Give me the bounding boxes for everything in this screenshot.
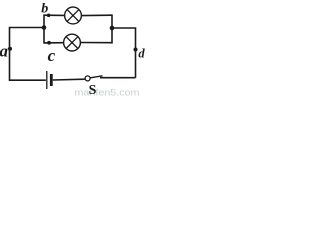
svg-text:c: c xyxy=(48,46,56,65)
svg-text:d: d xyxy=(138,46,145,60)
svg-text:manfen5.com: manfen5.com xyxy=(75,88,140,98)
svg-text:S: S xyxy=(89,83,97,97)
svg-text:b: b xyxy=(41,1,48,16)
svg-text:a: a xyxy=(0,42,9,61)
